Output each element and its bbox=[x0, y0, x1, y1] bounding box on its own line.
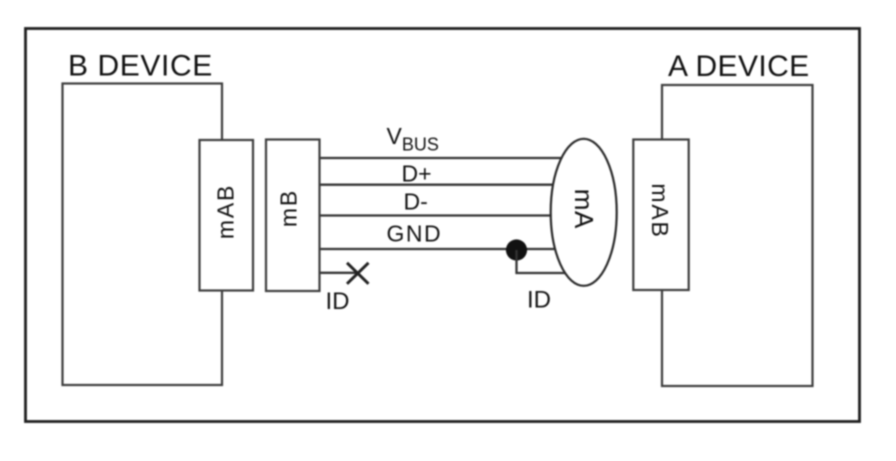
svg-text:D+: D+ bbox=[402, 161, 432, 187]
svg-text:mAB: mAB bbox=[213, 184, 239, 239]
svg-text:B DEVICE: B DEVICE bbox=[68, 50, 213, 83]
wire ID to mA plug bbox=[517, 250, 581, 273]
wire GND bbox=[318, 248, 585, 250]
wire VBUS bbox=[318, 157, 585, 159]
no-connect X on ID bbox=[347, 263, 369, 284]
connector mA plug (ellipse) bbox=[551, 139, 617, 286]
A DEVICE box bbox=[662, 85, 813, 386]
svg-text:mAB: mAB bbox=[647, 183, 673, 238]
svg-text:A DEVICE: A DEVICE bbox=[668, 50, 810, 83]
svg-text:mA: mA bbox=[569, 189, 599, 229]
outer frame bbox=[26, 29, 860, 422]
wire ID stub from mB bbox=[318, 272, 357, 274]
wire D- bbox=[318, 214, 585, 216]
svg-text:D-: D- bbox=[404, 189, 428, 215]
svg-text:ID: ID bbox=[527, 287, 551, 314]
junction dot on GND bbox=[506, 239, 527, 260]
wire D+ bbox=[318, 184, 585, 186]
svg-text:GND: GND bbox=[387, 221, 443, 247]
B DEVICE box bbox=[63, 84, 223, 386]
svg-text:ID: ID bbox=[326, 288, 350, 315]
connector mAB receptacle (B side) bbox=[200, 140, 254, 291]
svg-text:mB: mB bbox=[276, 189, 302, 227]
connector mAB receptacle (A side) bbox=[633, 140, 688, 291]
connector mB plug bbox=[266, 140, 320, 292]
